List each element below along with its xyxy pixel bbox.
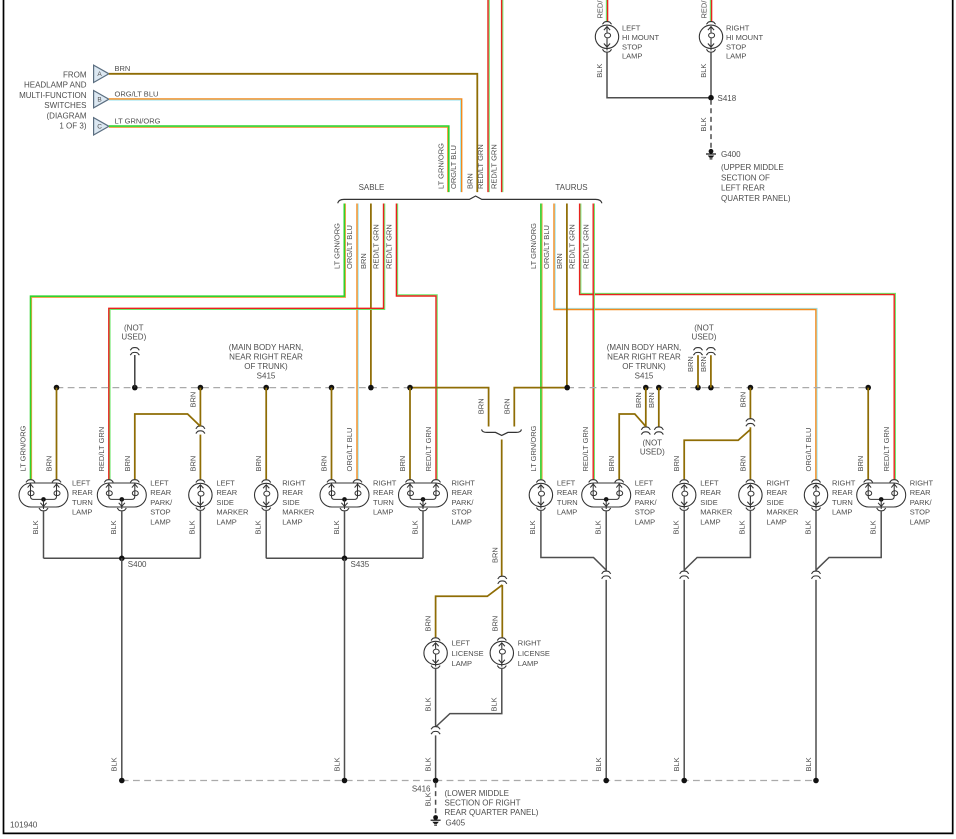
- svg-text:S416: S416: [412, 785, 431, 794]
- svg-text:PARK/: PARK/: [452, 498, 475, 507]
- wire BLK right rear park/stop to S435: [422, 511, 424, 559]
- wire RED/LT GRN to left hi mount stop lamp: [605, 0, 607, 21]
- svg-text:RED/LT GRN: RED/LT GRN: [581, 224, 590, 269]
- splice S415 pin brn to side marker and park/stop: [198, 385, 204, 391]
- wire BRN to left licence lamp: [436, 585, 503, 638]
- svg-text:REAR: REAR: [282, 488, 303, 497]
- svg-text:TURN: TURN: [557, 498, 578, 507]
- svg-text:MARKER: MARKER: [282, 508, 315, 517]
- svg-text:(NOT: (NOT: [124, 324, 144, 333]
- svg-text:LAMP: LAMP: [373, 508, 393, 517]
- svg-text:REAR QUARTER PANEL): REAR QUARTER PANEL): [445, 808, 539, 817]
- svg-text:BLK: BLK: [699, 64, 708, 78]
- connector triangle B: [94, 91, 109, 108]
- svg-text:RIGHT: RIGHT: [766, 478, 790, 487]
- splice S415 pin to left rear turn lamp BRN: [54, 385, 60, 391]
- svg-text:STOP: STOP: [452, 508, 472, 517]
- svg-text:BLK: BLK: [31, 520, 40, 534]
- svg-text:TURN: TURN: [832, 498, 853, 507]
- svg-text:STOP: STOP: [910, 508, 930, 517]
- wire BLK S400 to S416: [121, 558, 123, 780]
- svg-text:STOP: STOP: [150, 508, 170, 517]
- svg-text:LEFT: LEFT: [72, 478, 91, 487]
- lamp left rear park/stop lamp (taurus): [582, 480, 631, 511]
- svg-text:BRN: BRN: [672, 456, 681, 472]
- splice S415 brn feed sable: [368, 385, 374, 391]
- splice S415 pin to right rear park/stop: [407, 385, 413, 391]
- svg-text:RED/LT GRN: RED/LT GRN: [385, 224, 394, 269]
- svg-text:LAMP: LAMP: [726, 52, 746, 61]
- svg-text:RED/LT GRN: RED/LT GRN: [97, 427, 106, 472]
- wire RED/LT GRN feed 2 from top: [502, 0, 504, 192]
- svg-text:RED/LT GRN: RED/LT GRN: [568, 224, 577, 269]
- wire BLK right rear park/stop taurus: [816, 511, 881, 570]
- lamp left licence: [424, 638, 447, 669]
- wire BLK right hi mount to S418: [710, 52, 712, 97]
- svg-text:BRN: BRN: [647, 392, 656, 408]
- svg-text:RIGHT: RIGHT: [726, 24, 750, 33]
- inline connector ground pair 2 taurus: [680, 571, 689, 574]
- svg-text:QUARTER PANEL): QUARTER PANEL): [721, 194, 791, 203]
- wire BRN to left rear side marker lamp: [199, 435, 201, 480]
- svg-text:BRN: BRN: [856, 456, 865, 472]
- splice S435: [342, 556, 348, 562]
- svg-text:LAMP: LAMP: [452, 517, 472, 526]
- inline connector ground pair 1 taurus: [602, 571, 611, 574]
- svg-text:LT GRN/ORG: LT GRN/ORG: [115, 116, 161, 125]
- svg-text:BLK: BLK: [528, 520, 537, 534]
- lamp right rear park/stop lamp (taurus): [857, 480, 906, 511]
- wire BLK bus S400: [44, 557, 201, 559]
- svg-text:(NOT: (NOT: [694, 324, 714, 333]
- svg-text:LICENSE: LICENSE: [518, 649, 550, 658]
- svg-text:RIGHT: RIGHT: [910, 478, 934, 487]
- connector stub with park/stop tap taurus: [643, 385, 649, 391]
- splice S418: [708, 95, 714, 101]
- svg-text:BLK: BLK: [869, 520, 878, 534]
- svg-text:LEFT: LEFT: [700, 478, 719, 487]
- wire BLK dashed to ground G400: [710, 100, 712, 148]
- wire BLK right rear side marker taurus: [684, 511, 750, 570]
- svg-text:TURN: TURN: [373, 498, 394, 507]
- svg-text:ORG/LT BLU: ORG/LT BLU: [542, 225, 551, 269]
- svg-text:OF TRUNK): OF TRUNK): [622, 362, 666, 371]
- wire BLK dashed to ground G405: [435, 783, 437, 815]
- svg-text:S415: S415: [257, 371, 276, 380]
- svg-text:MULTI-FUNCTION: MULTI-FUNCTION: [19, 91, 87, 100]
- svg-text:LEFT: LEFT: [557, 478, 576, 487]
- svg-text:A: A: [97, 71, 102, 78]
- svg-text:OF TRUNK): OF TRUNK): [244, 362, 288, 371]
- svg-text:REAR: REAR: [72, 488, 93, 497]
- svg-text:STOP: STOP: [622, 42, 642, 51]
- svg-text:(LOWER MIDDLE: (LOWER MIDDLE: [445, 789, 509, 798]
- svg-text:BLK: BLK: [738, 520, 747, 534]
- svg-text:PARK/: PARK/: [910, 498, 933, 507]
- connector triangle A: [94, 65, 109, 82]
- svg-text:ORG/LT BLU: ORG/LT BLU: [449, 145, 458, 189]
- svg-text:RIGHT: RIGHT: [832, 478, 856, 487]
- svg-text:REAR: REAR: [766, 488, 787, 497]
- wire BLK bus S435: [266, 557, 423, 559]
- svg-text:BLK: BLK: [332, 757, 341, 771]
- svg-text:ORG/LT BLU: ORG/LT BLU: [115, 89, 159, 98]
- svg-text:(MAIN BODY HARN,: (MAIN BODY HARN,: [607, 343, 682, 352]
- svg-text:HI MOUNT: HI MOUNT: [622, 33, 659, 42]
- connector S416 dashed line: [122, 780, 816, 782]
- wire BLK right licence: [436, 669, 502, 727]
- svg-text:S435: S435: [351, 560, 370, 569]
- svg-text:BLK: BLK: [594, 520, 603, 534]
- svg-text:RED/LT GRN: RED/LT GRN: [372, 224, 381, 269]
- svg-text:BLK: BLK: [490, 697, 499, 711]
- lamp right hi mount stop: [699, 22, 722, 53]
- wire BLK left rear park/stop taurus: [605, 511, 607, 572]
- inline connector left side marker: [196, 426, 205, 429]
- lamp left rear side marker lamp (sable): [189, 480, 212, 511]
- wire BRN bridge taurus side: [514, 388, 567, 427]
- svg-text:RED/LT GRN: RED/LT GRN: [595, 0, 604, 19]
- wire BLK pair 1 to S416: [605, 580, 607, 781]
- svg-text:NEAR RIGHT REAR: NEAR RIGHT REAR: [607, 352, 681, 361]
- wire BLK S435 to S416: [344, 558, 346, 780]
- svg-text:BRN: BRN: [502, 398, 511, 414]
- svg-text:S415: S415: [635, 371, 654, 380]
- svg-text:SIDE: SIDE: [216, 498, 234, 507]
- svg-text:BRN: BRN: [254, 456, 263, 472]
- svg-text:LAMP: LAMP: [216, 517, 236, 526]
- svg-text:REAR: REAR: [557, 488, 578, 497]
- lamp right rear side marker lamp (taurus): [739, 480, 762, 511]
- svg-text:BRN: BRN: [123, 456, 132, 472]
- svg-text:LAMP: LAMP: [282, 517, 302, 526]
- wire BRN taurus to S415: [566, 204, 568, 388]
- svg-text:SIDE: SIDE: [766, 498, 784, 507]
- svg-text:ORG/LT BLU: ORG/LT BLU: [804, 428, 813, 472]
- svg-text:LEFT: LEFT: [150, 478, 169, 487]
- svg-text:(NOT: (NOT: [643, 439, 663, 448]
- splice S400: [119, 556, 125, 562]
- svg-text:STOP: STOP: [635, 508, 655, 517]
- svg-text:BRN: BRN: [738, 392, 747, 408]
- wire BRN to right rear side marker taurus: [749, 427, 751, 479]
- svg-text:REAR: REAR: [373, 488, 394, 497]
- svg-text:PARK/: PARK/: [635, 498, 658, 507]
- svg-text:TURN: TURN: [72, 498, 93, 507]
- svg-text:LEFT: LEFT: [452, 639, 471, 648]
- svg-text:BLK: BLK: [423, 792, 432, 806]
- svg-text:USED): USED): [692, 333, 717, 342]
- svg-text:REAR: REAR: [216, 488, 237, 497]
- svg-text:STOP: STOP: [726, 42, 746, 51]
- svg-text:BRN: BRN: [465, 173, 474, 189]
- wire ORG/LT BLU taurus to right rear turn lamp: [555, 204, 817, 480]
- wire BRN tap left rear park/stop taurus: [619, 414, 646, 479]
- wire BRN tap left rear park/stop lamp: [135, 414, 201, 479]
- svg-text:BRN: BRN: [188, 456, 197, 472]
- svg-text:MARKER: MARKER: [216, 508, 249, 517]
- splice S415 pin to side markers taurus: [748, 385, 754, 391]
- svg-text:LAMP: LAMP: [766, 517, 786, 526]
- svg-text:BRN: BRN: [699, 356, 708, 372]
- svg-text:S418: S418: [718, 94, 737, 103]
- inline connector side markers taurus: [746, 419, 755, 422]
- wire RED/LT GRN sable to left rear park/stop lamp: [110, 204, 385, 480]
- svg-text:BRN: BRN: [607, 456, 616, 472]
- inline connector licence ground: [431, 727, 440, 730]
- splice dots on S416 line: [119, 778, 125, 784]
- svg-text:TAURUS: TAURUS: [555, 183, 587, 192]
- svg-text:BRN: BRN: [555, 253, 564, 269]
- wire BLK licence to S416: [435, 735, 437, 780]
- wire RED/LT GRN feed 1 from top: [488, 0, 490, 192]
- wire BRN branch to left rear side marker taurus: [684, 430, 750, 480]
- svg-text:BRN: BRN: [477, 398, 486, 414]
- svg-text:SECTION OF: SECTION OF: [721, 173, 770, 182]
- svg-text:BLK: BLK: [332, 520, 341, 534]
- svg-text:REAR: REAR: [832, 488, 853, 497]
- svg-text:LT GRN/ORG: LT GRN/ORG: [332, 223, 341, 269]
- ground G405: [431, 815, 441, 825]
- connector not used stub sable: [132, 385, 138, 391]
- wire BRN sable to S415: [370, 204, 372, 388]
- lamp right rear side marker lamp (sable): [255, 480, 278, 511]
- connector not used up stub 2 taurus: [708, 385, 714, 391]
- svg-text:BLK: BLK: [188, 520, 197, 534]
- svg-text:LAMP: LAMP: [72, 508, 92, 517]
- svg-text:LAMP: LAMP: [150, 517, 170, 526]
- svg-text:LT GRN/ORG: LT GRN/ORG: [529, 425, 538, 471]
- svg-text:BLK: BLK: [410, 520, 419, 534]
- svg-text:BRN: BRN: [188, 392, 197, 408]
- lamp left hi mount stop: [595, 22, 618, 53]
- svg-text:C: C: [97, 124, 102, 131]
- svg-text:BRN: BRN: [320, 456, 329, 472]
- wire BLK right rear turn to S435: [344, 511, 346, 559]
- svg-text:LAMP: LAMP: [518, 659, 538, 668]
- svg-text:RIGHT: RIGHT: [452, 478, 476, 487]
- svg-text:BRN: BRN: [424, 616, 433, 632]
- svg-text:BLK: BLK: [699, 117, 708, 131]
- svg-text:BLK: BLK: [594, 757, 603, 771]
- ground G400: [706, 149, 716, 159]
- svg-text:LAMP: LAMP: [557, 508, 577, 517]
- svg-text:LEFT REAR: LEFT REAR: [721, 184, 765, 193]
- wire BLK left rear park/stop to S400: [121, 511, 123, 559]
- svg-text:LEFT: LEFT: [622, 24, 641, 33]
- svg-text:NEAR RIGHT REAR: NEAR RIGHT REAR: [229, 352, 303, 361]
- svg-text:(DIAGRAM: (DIAGRAM: [47, 111, 87, 120]
- svg-text:BRN: BRN: [398, 456, 407, 472]
- svg-text:BLK: BLK: [254, 520, 263, 534]
- connector not used up stub 1 taurus: [695, 385, 701, 391]
- svg-text:LAMP: LAMP: [910, 517, 930, 526]
- svg-text:BRN: BRN: [634, 392, 643, 408]
- lamp left rear side marker lamp (taurus): [673, 480, 696, 511]
- svg-text:HEADLAMP AND: HEADLAMP AND: [24, 81, 87, 90]
- svg-text:RED/LT GRN: RED/LT GRN: [476, 144, 485, 189]
- svg-text:LEFT: LEFT: [635, 478, 654, 487]
- svg-text:MARKER: MARKER: [766, 508, 799, 517]
- svg-text:BLK: BLK: [804, 757, 813, 771]
- svg-text:B: B: [97, 97, 101, 104]
- svg-text:BRN: BRN: [115, 64, 131, 73]
- inline connector ground pair 3 taurus: [811, 571, 820, 574]
- svg-text:LICENSE: LICENSE: [452, 649, 484, 658]
- wire BLK left licence: [435, 669, 437, 727]
- connector triangle C: [94, 118, 109, 135]
- svg-text:BRN: BRN: [738, 456, 747, 472]
- svg-text:LAMP: LAMP: [452, 659, 472, 668]
- svg-text:RED/LT GRN: RED/LT GRN: [581, 427, 590, 472]
- wire BLK right rear side marker to S435: [265, 511, 267, 558]
- svg-text:LAMP: LAMP: [700, 517, 720, 526]
- wire BLK left rear side marker taurus: [683, 511, 685, 572]
- wire ORG/LT BLU sable to right rear turn lamp: [357, 204, 359, 480]
- svg-text:ORG/LT BLU: ORG/LT BLU: [345, 225, 354, 269]
- svg-text:BLK: BLK: [595, 64, 604, 78]
- svg-text:G405: G405: [446, 819, 466, 828]
- svg-text:BLK: BLK: [109, 520, 118, 534]
- svg-text:BRN: BRN: [686, 356, 695, 372]
- svg-text:SECTION OF RIGHT: SECTION OF RIGHT: [445, 799, 521, 808]
- lamp left rear turn lamp (taurus): [529, 480, 552, 511]
- svg-text:USED): USED): [640, 447, 665, 456]
- svg-text:LT GRN/ORG: LT GRN/ORG: [436, 143, 445, 189]
- wire BLK pair 2 to S416: [683, 580, 685, 781]
- svg-text:LAMP: LAMP: [635, 517, 655, 526]
- wire BLK left rear turn taurus: [541, 511, 606, 570]
- wire BLK left rear turn to S400: [43, 511, 45, 559]
- brace splitting SABLE / TAURUS: [338, 196, 602, 203]
- wire RED/LT GRN taurus to left rear park/stop lamp: [593, 204, 595, 480]
- svg-text:RIGHT: RIGHT: [282, 478, 306, 487]
- svg-text:BLK: BLK: [672, 520, 681, 534]
- splice S415 pin to right rear park/stop taurus: [865, 385, 871, 391]
- wire BRN to right licence lamp: [501, 585, 503, 638]
- svg-text:RED/LT GRN: RED/LT GRN: [424, 427, 433, 472]
- svg-text:REAR: REAR: [700, 488, 721, 497]
- wire BLK left rear side marker to S400: [199, 511, 201, 558]
- wire BLK left hi mount to S418: [607, 52, 709, 97]
- lamp right rear turn lamp (taurus): [804, 480, 827, 511]
- wire BRN from connector A: [109, 74, 477, 192]
- wire BRN bridge sable side: [410, 388, 489, 427]
- svg-text:SWITCHES: SWITCHES: [44, 101, 86, 110]
- svg-text:BRN: BRN: [490, 547, 499, 563]
- svg-text:SIDE: SIDE: [700, 498, 718, 507]
- lamp left rear turn lamp (sable): [19, 480, 68, 511]
- svg-text:MARKER: MARKER: [700, 508, 733, 517]
- svg-text:REAR: REAR: [910, 488, 931, 497]
- svg-text:REAR: REAR: [150, 488, 171, 497]
- svg-text:PARK/: PARK/: [150, 498, 173, 507]
- svg-text:BLK: BLK: [423, 757, 432, 771]
- splice S415 brn feed taurus: [564, 385, 570, 391]
- wire BLK pair 3 to S416: [815, 580, 817, 781]
- svg-text:BRN: BRN: [490, 616, 499, 632]
- svg-text:RED/LT GRN: RED/LT GRN: [882, 427, 891, 472]
- svg-text:BRN: BRN: [359, 253, 368, 269]
- svg-text:BLK: BLK: [803, 520, 812, 534]
- svg-text:ORG/LT BLU: ORG/LT BLU: [345, 428, 354, 472]
- wire LT GRN/ORG taurus to left rear turn lamp: [541, 204, 543, 480]
- svg-text:SABLE: SABLE: [359, 183, 385, 192]
- wire BLK right rear turn taurus: [815, 511, 817, 572]
- svg-text:USED): USED): [121, 333, 146, 342]
- brace licence lamp feed: [482, 429, 522, 435]
- svg-text:REAR: REAR: [635, 488, 656, 497]
- wire ORG/LT BLU from connector B: [109, 100, 461, 192]
- svg-text:S400: S400: [128, 560, 147, 569]
- svg-text:RIGHT: RIGHT: [373, 478, 397, 487]
- splice S415 pin to right rear turn lamp: [329, 385, 335, 391]
- svg-text:FROM: FROM: [63, 71, 87, 80]
- svg-text:REAR: REAR: [452, 488, 473, 497]
- wire BRN licence feed: [501, 440, 503, 577]
- svg-text:LAMP: LAMP: [832, 508, 852, 517]
- wire LT GRN/ORG sable to left rear turn lamp: [32, 204, 346, 480]
- svg-text:LT GRN/ORG: LT GRN/ORG: [19, 425, 28, 471]
- connector stub not used taurus: [656, 385, 662, 391]
- svg-text:HI MOUNT: HI MOUNT: [726, 33, 763, 42]
- svg-text:LEFT: LEFT: [216, 478, 235, 487]
- svg-text:G400: G400: [721, 150, 741, 159]
- svg-text:BLK: BLK: [110, 757, 119, 771]
- wire LT GRN/ORG from connector C: [109, 127, 448, 192]
- wire RED/LT GRN to right hi mount stop lamp: [709, 0, 711, 21]
- svg-text:SIDE: SIDE: [282, 498, 300, 507]
- svg-text:BRN: BRN: [45, 456, 54, 472]
- svg-text:(UPPER MIDDLE: (UPPER MIDDLE: [721, 163, 784, 172]
- lamp right rear park/stop lamp (sable): [399, 480, 448, 511]
- wire RED/LT GRN taurus to right rear park/stop lamp: [581, 204, 896, 480]
- svg-text:LAMP: LAMP: [622, 52, 642, 61]
- lamp right licence: [490, 638, 513, 669]
- connector S415 dashed line right segment: [567, 387, 868, 389]
- svg-text:1 OF 3): 1 OF 3): [59, 122, 86, 131]
- svg-text:RED/LT GRN: RED/LT GRN: [699, 0, 708, 19]
- svg-text:RED/LT GRN: RED/LT GRN: [490, 144, 499, 189]
- svg-text:RIGHT: RIGHT: [518, 639, 542, 648]
- inline connector licence feed: [498, 576, 507, 579]
- splice S415 pin to right rear side marker: [263, 385, 269, 391]
- svg-text:LT GRN/ORG: LT GRN/ORG: [529, 223, 538, 269]
- svg-text:101940: 101940: [10, 821, 38, 830]
- svg-text:BLK: BLK: [423, 697, 432, 711]
- svg-text:(MAIN BODY HARN,: (MAIN BODY HARN,: [229, 343, 304, 352]
- wire RED/LT GRN sable to right rear park/stop lamp: [398, 204, 438, 480]
- lamp left rear park/stop lamp (sable): [97, 480, 146, 511]
- connector S415 dashed line left segment: [57, 387, 411, 389]
- svg-text:BLK: BLK: [672, 757, 681, 771]
- lamp right rear turn lamp (sable): [320, 480, 369, 511]
